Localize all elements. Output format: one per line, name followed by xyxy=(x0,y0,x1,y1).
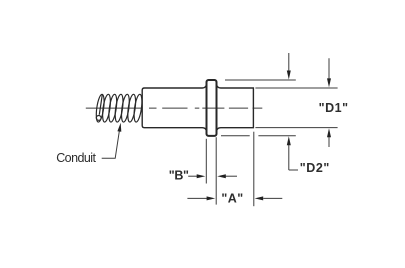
conduit coil xyxy=(95,94,143,123)
dimension B left extension line xyxy=(205,139,207,184)
dimension D2 up arrow xyxy=(288,144,290,170)
centerline xyxy=(86,107,262,109)
dimension B right-pointing arrow xyxy=(188,175,197,177)
dimension D2 bottom extension line xyxy=(221,135,296,137)
dimension A left-pointing arrow xyxy=(263,197,282,199)
dimension D2 down arrow xyxy=(288,53,290,72)
dimension D1 up arrow xyxy=(328,137,330,147)
body (right cylinder) xyxy=(217,84,254,131)
dimension D2 top extension line xyxy=(225,79,296,81)
flange xyxy=(207,80,217,136)
dimension B/A shared extension line xyxy=(215,137,217,204)
dimension D1 down arrow xyxy=(328,58,330,79)
svg-text:"D1": "D1" xyxy=(319,101,349,115)
dimension A right extension line xyxy=(253,132,255,207)
dimension D2 leader xyxy=(289,169,298,171)
dimension D1 top extension line xyxy=(255,87,337,89)
svg-text:"D2": "D2" xyxy=(300,161,330,175)
coil lead-in wire xyxy=(99,95,102,115)
conduit leader line xyxy=(102,130,120,158)
dimension D1 bottom extension line xyxy=(255,127,337,129)
conduit leader arrowhead xyxy=(117,123,121,132)
dimension B left-pointing arrow xyxy=(225,175,237,177)
svg-text:"B": "B" xyxy=(169,169,189,183)
small cylinder (ferrule) xyxy=(142,84,206,131)
svg-text:"A": "A" xyxy=(221,192,243,206)
svg-text:Conduit: Conduit xyxy=(56,151,96,165)
coil wire end xyxy=(96,116,101,121)
dimension A right-pointing arrow xyxy=(187,197,207,199)
